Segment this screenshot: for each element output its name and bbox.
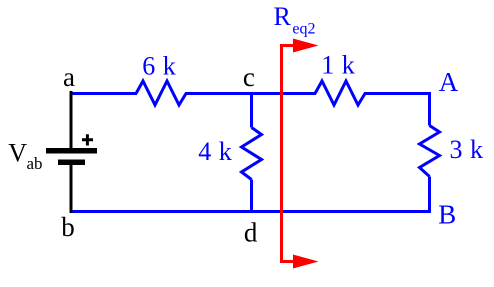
- svg-text:B: B: [438, 200, 456, 230]
- wire: bottom rail node d to node b: [70, 210, 251, 213]
- svg-text:b: b: [61, 212, 75, 242]
- svg-text:Vab: Vab: [8, 138, 42, 173]
- red cut line vertical shaft: [280, 44, 283, 263]
- svg-text:A: A: [439, 67, 459, 97]
- wire: node a to resistor 6k (top left): [70, 92, 137, 95]
- wire: bottom rail node B to node d: [251, 210, 431, 213]
- svg-text:6 k: 6 k: [142, 52, 176, 81]
- svg-text:3 k: 3 k: [450, 135, 484, 164]
- battery V1 positive plate (long): [46, 148, 97, 154]
- svg-text:4 k: 4 k: [198, 137, 232, 166]
- wire: node c down to resistor 4k: [250, 94, 253, 128]
- red cut line bottom arrowhead: [293, 255, 319, 269]
- wire: node a down to battery positive plate (black): [70, 91, 73, 149]
- battery plus sign: [82, 134, 93, 145]
- resistor R4 3k zigzag: [420, 126, 440, 177]
- wire: node c to resistor 1k (crosses red cut line): [251, 92, 316, 95]
- red cut line top arrowhead: [293, 39, 319, 53]
- red cut line top arrow shaft: [280, 44, 298, 47]
- wire: resistor 1k to node A: [364, 92, 431, 95]
- wire: resistor 4k down to node d: [250, 180, 253, 213]
- red cut line bottom arrow shaft: [280, 260, 298, 263]
- svg-text:1 k: 1 k: [321, 51, 355, 80]
- wire: node A down to resistor 3k: [428, 92, 431, 126]
- svg-text:a: a: [63, 62, 75, 92]
- resistor R1 6k zigzag: [136, 81, 186, 105]
- svg-text:c: c: [243, 62, 255, 92]
- svg-text:d: d: [244, 217, 258, 247]
- wire: battery negative plate down to node b (black): [70, 165, 73, 213]
- svg-text:Req2: Req2: [274, 2, 316, 38]
- battery V1 negative plate (short): [58, 160, 85, 166]
- wire: resistor 6k to node c: [185, 92, 251, 95]
- wire: resistor 3k down to node B: [428, 177, 431, 214]
- resistor R3 4k zigzag: [242, 128, 262, 180]
- resistor R2 1k zigzag: [315, 81, 365, 105]
